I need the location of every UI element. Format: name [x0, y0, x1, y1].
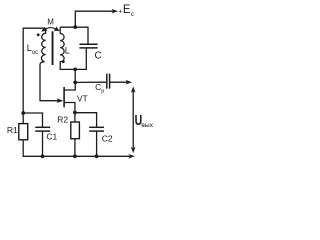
wire base feed from Loc bottom: [40, 65, 59, 101]
svg-text:C1: C1: [46, 131, 57, 141]
wire R1 bottom lead: [23, 140, 130, 157]
wire C1 bottom lead: [42, 131, 44, 156]
wire R2 top lead: [74, 113, 76, 123]
wire Cp to output arrow: [110, 81, 128, 83]
svg-text:R2: R2: [57, 115, 68, 125]
svg-text:Ec: Ec: [123, 4, 135, 18]
node R1 top junction: [21, 111, 25, 115]
output top arrowhead: [126, 80, 132, 85]
resistor R1: [19, 124, 28, 140]
polarity dot Loc: [37, 33, 40, 36]
inductor L right winding: [60, 27, 75, 69]
transistor VT: [63, 87, 65, 107]
wire top supply riser: [75, 11, 114, 27]
emitter node junction: [73, 111, 77, 115]
node supply tap junction: [73, 25, 77, 29]
transformer core: [52, 31, 54, 65]
capacitor C1: [35, 127, 50, 131]
wire R1 node to C1: [23, 113, 42, 127]
ground rail junction C2: [95, 154, 99, 158]
capacitor C: [79, 44, 97, 48]
svg-text:C2: C2: [102, 134, 113, 144]
svg-text:C: C: [95, 50, 102, 61]
wire emitter: [64, 103, 75, 113]
svg-text:R1: R1: [7, 125, 18, 135]
node B junction: [73, 81, 77, 85]
resistor R2: [71, 122, 80, 139]
wire C2 bottom lead: [96, 131, 98, 156]
inductor Loc left winding: [40, 28, 46, 65]
wire tank bottom to node A: [75, 48, 86, 69]
svg-text:Loc: Loc: [27, 43, 38, 56]
mutual coupling arrow M: [41, 27, 60, 32]
ground rail junction C1: [41, 154, 45, 158]
wire left top rail: [23, 28, 45, 123]
svg-text:вых: вых: [141, 122, 153, 129]
base arrowhead: [57, 98, 64, 103]
svg-text:VT: VT: [77, 94, 88, 104]
supply arrowhead: [112, 9, 118, 14]
ground rail junction R2: [73, 154, 77, 158]
svg-text:+: +: [118, 9, 122, 16]
node A junction: [73, 68, 77, 72]
svg-text:Cp: Cp: [95, 82, 104, 94]
wire tank top: [60, 27, 88, 44]
wire R2 bottom lead: [74, 139, 76, 157]
wire collector: [64, 82, 75, 90]
svg-text:M: M: [47, 18, 54, 27]
polarity dot L: [62, 60, 65, 63]
wire emitter node to C2: [75, 113, 97, 127]
wire node B to Cp: [75, 81, 106, 83]
capacitor C2: [89, 127, 104, 131]
label Uout: [135, 111, 154, 129]
output bottom arrowhead: [128, 154, 134, 159]
wire node A to node B: [74, 69, 76, 82]
svg-text:L: L: [65, 46, 70, 56]
capacitor Cp coupling: [107, 74, 110, 89]
output voltage double arrow: [132, 91, 134, 149]
